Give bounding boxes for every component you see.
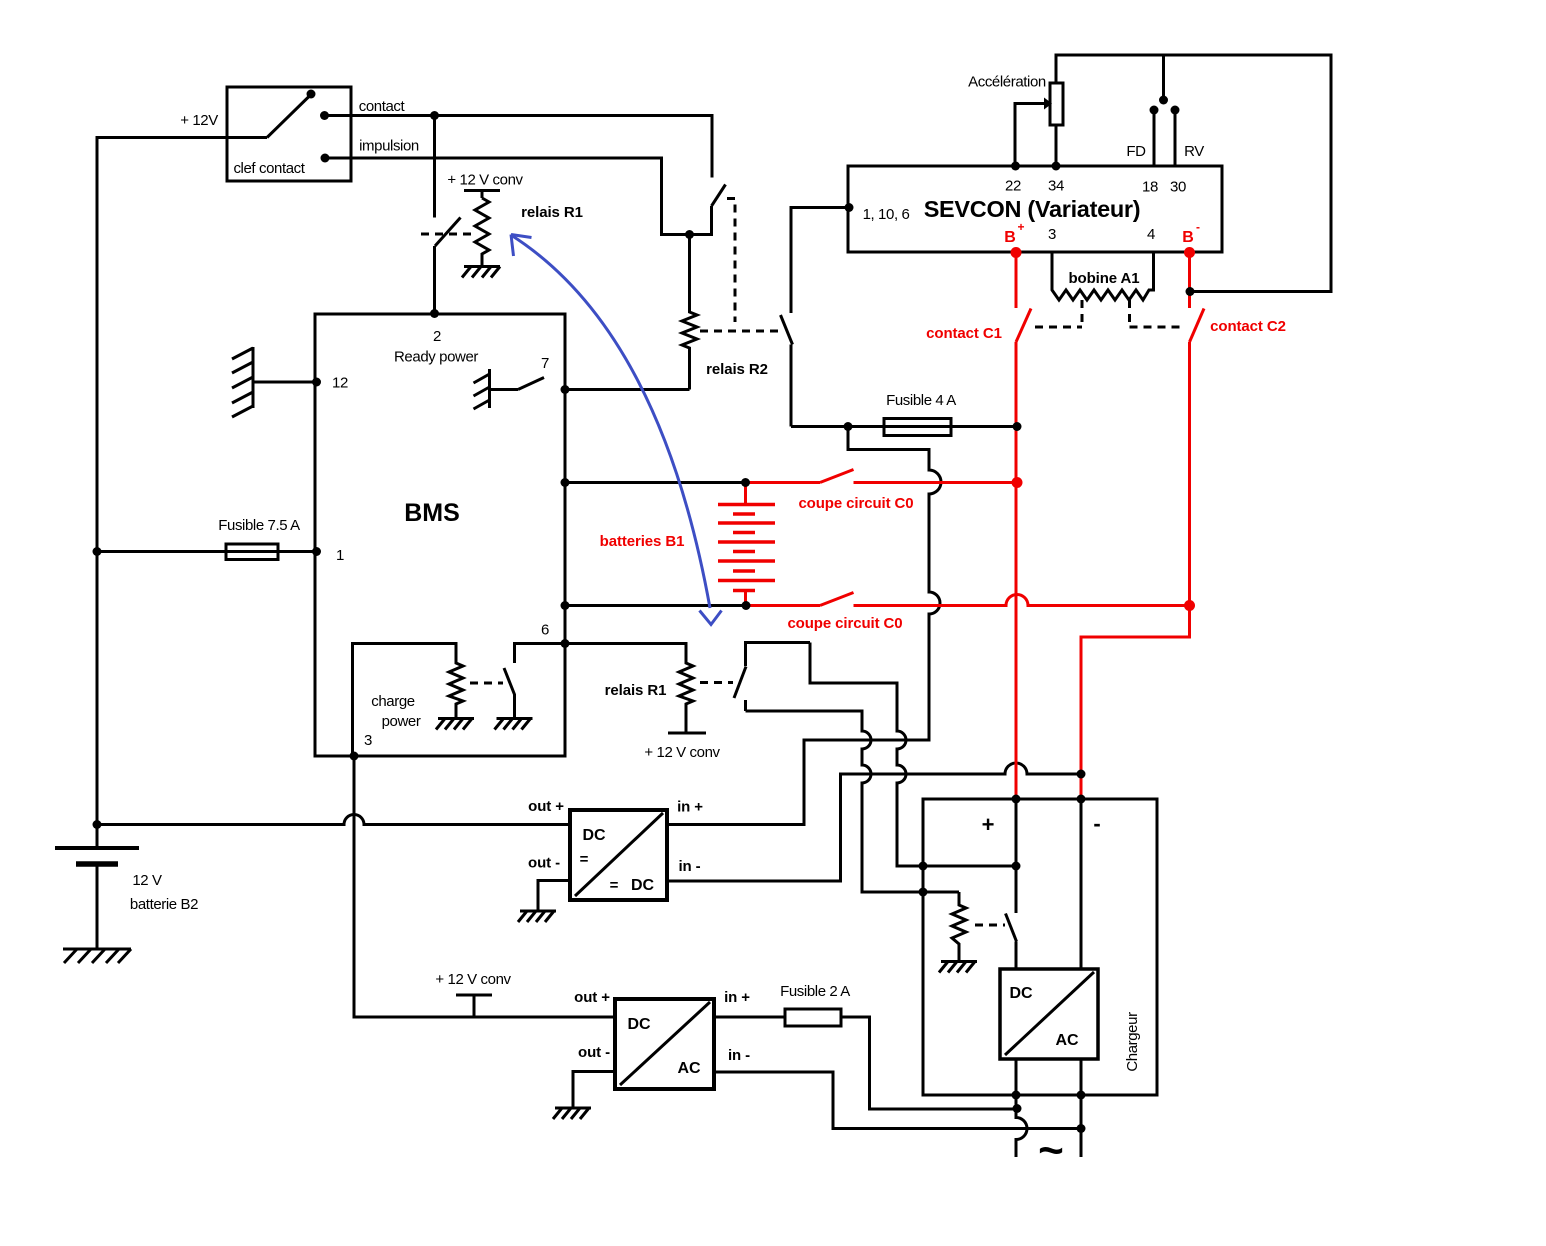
svg-text:out +: out + <box>574 989 610 1006</box>
svg-text:coupe circuit C0: coupe circuit C0 <box>798 495 913 512</box>
svg-text:impulsion: impulsion <box>359 138 419 155</box>
svg-text:SEVCON (Variateur): SEVCON (Variateur) <box>924 196 1141 222</box>
svg-text:bobine A1: bobine A1 <box>1068 270 1139 287</box>
svg-text:12 V: 12 V <box>132 872 162 889</box>
svg-text:in -: in - <box>728 1047 750 1064</box>
svg-text:1, 10, 6: 1, 10, 6 <box>863 206 910 223</box>
svg-text:out -: out - <box>578 1044 610 1061</box>
svg-text:RV: RV <box>1184 143 1204 160</box>
svg-text:batteries B1: batteries B1 <box>600 533 685 550</box>
svg-text:+: + <box>1018 220 1025 234</box>
svg-text:Accélération: Accélération <box>968 74 1046 91</box>
svg-text:7: 7 <box>541 355 549 372</box>
svg-text:contact: contact <box>359 98 406 115</box>
svg-text:+ 12 V conv: + 12 V conv <box>435 971 511 988</box>
svg-text:30: 30 <box>1170 179 1186 196</box>
svg-text:-: - <box>1093 811 1100 836</box>
svg-text:DC: DC <box>1010 985 1033 1002</box>
svg-text:BMS: BMS <box>404 499 460 527</box>
svg-text:B: B <box>1004 229 1015 246</box>
svg-text:+ 12 V conv: + 12 V conv <box>644 744 720 761</box>
svg-text:~: ~ <box>1038 1126 1064 1175</box>
svg-text:18: 18 <box>1142 179 1158 196</box>
svg-text:34: 34 <box>1048 178 1064 195</box>
svg-text:in +: in + <box>677 799 703 816</box>
svg-text:=: = <box>580 851 589 868</box>
svg-text:clef contact: clef contact <box>233 160 305 177</box>
svg-text:+ 12V: + 12V <box>180 112 218 129</box>
svg-text:in -: in - <box>678 858 700 875</box>
svg-text:-: - <box>1196 220 1200 234</box>
svg-text:Fusible 7.5 A: Fusible 7.5 A <box>218 517 300 534</box>
svg-text:B: B <box>1182 229 1193 246</box>
svg-text:in +: in + <box>724 989 750 1006</box>
svg-text:3: 3 <box>1048 226 1056 243</box>
svg-text:AC: AC <box>678 1060 701 1077</box>
svg-text:Chargeur: Chargeur <box>1124 1012 1141 1072</box>
svg-text:charge: charge <box>371 693 415 710</box>
svg-text:Fusible 4 A: Fusible 4 A <box>886 392 956 409</box>
svg-text:2: 2 <box>433 328 441 345</box>
svg-text:DC: DC <box>583 827 606 844</box>
svg-text:contact C2: contact C2 <box>1210 318 1286 335</box>
svg-text:out -: out - <box>528 855 560 872</box>
svg-text:Ready power: Ready power <box>394 349 478 366</box>
svg-text:12: 12 <box>332 375 348 392</box>
svg-text:AC: AC <box>1056 1032 1079 1049</box>
svg-text:power: power <box>382 713 421 730</box>
svg-text:relais R1: relais R1 <box>521 204 583 221</box>
svg-text:3: 3 <box>364 732 372 749</box>
svg-text:22: 22 <box>1005 178 1021 195</box>
svg-text:DC: DC <box>631 877 654 894</box>
svg-text:1: 1 <box>336 547 344 564</box>
svg-text:4: 4 <box>1147 226 1155 243</box>
svg-text:relais R1: relais R1 <box>605 682 667 699</box>
svg-text:relais R2: relais R2 <box>706 361 768 378</box>
svg-text:+: + <box>982 812 995 837</box>
svg-text:=: = <box>610 877 619 894</box>
svg-text:contact C1: contact C1 <box>926 325 1002 342</box>
svg-text:coupe circuit C0: coupe circuit C0 <box>787 615 902 632</box>
svg-text:Fusible 2 A: Fusible 2 A <box>780 983 850 1000</box>
svg-text:batterie B2: batterie B2 <box>130 896 198 913</box>
svg-text:+ 12 V conv: + 12 V conv <box>447 172 523 189</box>
svg-text:out +: out + <box>528 798 564 815</box>
svg-text:FD: FD <box>1126 143 1146 160</box>
svg-text:6: 6 <box>541 622 549 639</box>
svg-text:DC: DC <box>628 1016 651 1033</box>
